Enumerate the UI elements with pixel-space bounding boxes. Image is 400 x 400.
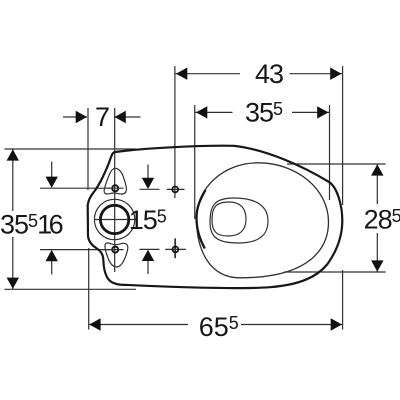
- dim 35.5 top line: [195, 111, 330, 113]
- dim 28.5 ref bottom: [284, 271, 386, 273]
- water outline outer: [210, 198, 268, 243]
- bowl left inner shading arc: [197, 190, 206, 249]
- arrow 15.5 up: [142, 250, 154, 261]
- dim 7 line: [63, 116, 141, 118]
- svg-text:43: 43: [255, 59, 283, 89]
- dim 35.5 left ref top: [5, 148, 136, 150]
- seat cross top arms: [167, 188, 185, 190]
- bottom shield hole: [112, 247, 118, 253]
- dim 15.5 ref bottom: [140, 248, 160, 250]
- arrow 35.5L bottom: [7, 278, 19, 289]
- bowl opening ellipse: [197, 163, 329, 278]
- dim 15.5 ref top: [140, 188, 160, 190]
- arrow 28.5 down: [371, 260, 383, 271]
- svg-text:7: 7: [95, 102, 109, 132]
- seat cross bottom ring: [173, 247, 179, 253]
- arrow 35.5t left: [196, 106, 207, 118]
- top shield: [104, 168, 126, 194]
- arrow 7 right: [115, 111, 126, 123]
- arrow 15.5 down: [142, 178, 154, 189]
- dim 35.5 top ext left: [194, 105, 196, 219]
- dim 65.5 line: [89, 324, 343, 326]
- arrow 28.5 up: [371, 164, 383, 175]
- dim 15.5 arrow stems: [147, 165, 149, 275]
- arrow 35.5L top: [7, 149, 19, 160]
- dim 16 ref bottom: [40, 249, 110, 251]
- bottom shield: [105, 243, 128, 267]
- flush pipe outer circle: [94, 199, 134, 239]
- dim 16 ref top: [40, 187, 110, 189]
- top shield hole arm: [107, 187, 124, 189]
- arrow 35.5t right: [317, 106, 328, 118]
- big circle crosshair: [94, 219, 138, 221]
- dim 35.5 top ext right: [329, 105, 331, 200]
- arrow 43 right: [330, 68, 341, 80]
- bottom shield hole arm: [102, 249, 123, 251]
- arrow 43 left: [176, 68, 187, 80]
- dim 7 ext left: [87, 108, 89, 190]
- arrow 16 up: [46, 250, 58, 261]
- dim 65.5 ext right: [342, 270, 344, 330]
- dim 43/65.5 ext right: [342, 66, 344, 205]
- dim 28.5 line: [376, 164, 378, 272]
- centerline through holes: [114, 108, 116, 272]
- water outline inner: [212, 202, 246, 236]
- dim 28.5 ref top: [287, 163, 386, 165]
- arrow 65.5 left: [89, 318, 100, 330]
- dim 65.5 ext left: [88, 248, 90, 330]
- seat cross top ring: [172, 187, 178, 193]
- arrow 16 down: [46, 177, 58, 188]
- flush pipe inner circle: [100, 205, 128, 233]
- dim 43 ext left: [174, 66, 176, 258]
- dim 35.5 left ref bottom: [5, 288, 137, 290]
- dim 43 line: [175, 73, 343, 75]
- seat cross bottom arms: [165, 238, 186, 258]
- dim 16 arrow stems: [51, 162, 53, 275]
- pan outer outline: [88, 146, 343, 288]
- top shield hole: [112, 185, 118, 191]
- arrow 65.5 right: [331, 318, 342, 330]
- arrow 7 left: [76, 111, 87, 123]
- dim 35.5 left line: [12, 149, 14, 289]
